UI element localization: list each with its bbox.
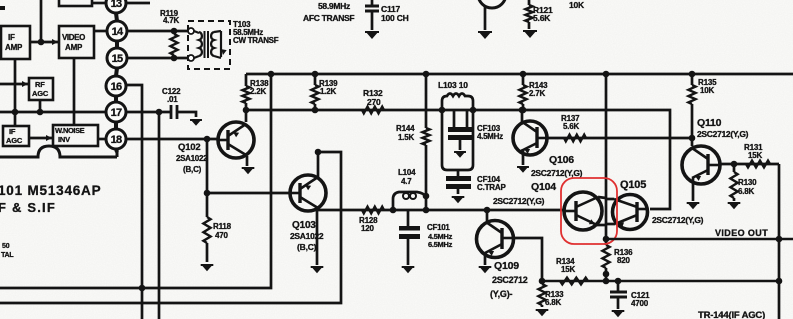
wire mid vertical to Q104/Q105	[605, 74, 608, 245]
ground R121	[523, 30, 537, 38]
ground R133	[536, 309, 549, 316]
resistor R139	[314, 74, 317, 85]
node R144 top	[423, 71, 430, 78]
wire transistor emitter	[484, 6, 487, 30]
node Q103 emitter junction	[315, 149, 322, 156]
inductor L104	[393, 192, 426, 210]
node RF AGC junction	[37, 109, 44, 116]
wire pin14 to T103	[127, 30, 191, 33]
svg-text:58.9MHz: 58.9MHz	[318, 1, 350, 11]
svg-text:470: 470	[215, 231, 228, 240]
svg-text:AGC: AGC	[32, 89, 49, 98]
ground CF101	[402, 266, 415, 273]
wire Q103 emitter rail	[0, 152, 341, 303]
svg-text:2.7K: 2.7K	[529, 89, 546, 98]
wire Q106 collector	[521, 110, 524, 124]
svg-text:4.5MHz: 4.5MHz	[477, 132, 503, 141]
capacitor C122	[127, 111, 170, 114]
svg-text:270: 270	[367, 97, 381, 107]
wire video signal line	[318, 209, 564, 212]
wire pin14 from VIDEO AMP	[94, 30, 107, 33]
node IF AMP output junction	[38, 39, 45, 46]
node Q109 collector bottom	[539, 278, 546, 285]
svg-text:AGC: AGC	[6, 136, 23, 145]
node box left	[439, 107, 446, 114]
svg-text:6.8K: 6.8K	[738, 187, 755, 196]
svg-text:6.8K: 6.8K	[545, 298, 562, 307]
wire RF AGC to pin17 rail	[39, 100, 42, 112]
wire pin16 vertical	[126, 85, 142, 319]
resistor R134	[560, 278, 588, 285]
T103 secondary wires	[214, 31, 221, 32]
node L104 right	[423, 193, 430, 200]
block VIDEO AMP	[59, 26, 94, 58]
IC U101 M51346AP block outline	[0, 146, 117, 157]
block IF AGC	[3, 126, 29, 146]
pin chain bars	[116, 13, 117, 21]
svg-text:1.5K: 1.5K	[398, 133, 415, 142]
wire pin15 to T103	[127, 57, 191, 60]
ceramic filter CF101	[407, 210, 410, 226]
svg-text:W.NOISE: W.NOISE	[55, 126, 85, 135]
wire Q109 collector	[513, 238, 542, 281]
wire IF AMP to IF AGC	[14, 59, 17, 126]
svg-text:2SC2712(Y,G): 2SC2712(Y,G)	[652, 215, 704, 225]
svg-text:(B,C): (B,C)	[183, 165, 202, 174]
resistor R136	[602, 245, 609, 268]
svg-text:CF101: CF101	[427, 223, 450, 232]
svg-text:Q105: Q105	[620, 179, 646, 191]
transistor Q105	[613, 195, 648, 230]
svg-text:L103 10: L103 10	[438, 80, 468, 90]
transistor Q109	[477, 221, 514, 258]
svg-text:15K: 15K	[561, 265, 575, 274]
node box right	[470, 107, 477, 114]
wire supply bus	[246, 73, 793, 76]
svg-text:13: 13	[111, 0, 122, 10]
svg-text:R144: R144	[396, 124, 415, 133]
svg-text:.01: .01	[167, 95, 178, 104]
svg-text:5.6K: 5.6K	[533, 13, 551, 23]
svg-text:5.6K: 5.6K	[563, 122, 580, 131]
node Q106 collector	[519, 107, 526, 114]
node R139 top	[312, 71, 319, 78]
svg-text:2SA1022: 2SA1022	[290, 231, 324, 241]
wire top feed to node	[40, 0, 43, 42]
svg-text:2SC2712(Y,G): 2SC2712(Y,G)	[697, 129, 749, 139]
block IF AMP	[1, 26, 30, 59]
resistor R135 branch	[691, 74, 694, 85]
svg-text:F & S.IF: F & S.IF	[0, 200, 56, 215]
svg-text:VIDEO OUT: VIDEO OUT	[715, 228, 768, 238]
wire pin13 left	[92, 2, 106, 5]
node L104 left	[390, 207, 397, 214]
edge mark	[0, 6, 5, 10]
ground Q106 emitter	[517, 166, 529, 173]
svg-text:2SA1022: 2SA1022	[176, 154, 208, 163]
resistor R137	[564, 135, 586, 142]
svg-text:2.2K: 2.2K	[250, 87, 267, 96]
wire Q102 collector / R138 branch	[245, 74, 248, 86]
node R136 bottom	[603, 271, 610, 278]
ground Q102	[242, 167, 255, 174]
node line-A start	[243, 107, 250, 114]
node Q103 base branch	[204, 190, 211, 197]
resistor R138	[242, 86, 249, 103]
svg-text:50: 50	[2, 243, 10, 250]
svg-text:15: 15	[112, 53, 123, 65]
node pin17 branch	[156, 109, 163, 116]
node video/right vertical	[776, 236, 783, 243]
wire pin13 right	[126, 2, 150, 5]
node R119 top	[171, 28, 178, 35]
wire Q102 emitter to ground	[246, 156, 249, 166]
svg-text:C.TRAP: C.TRAP	[477, 183, 506, 192]
node R136 bus junction	[603, 278, 610, 285]
svg-text:2SC2712(Y,G): 2SC2712(Y,G)	[531, 168, 583, 178]
wire pin17 vertical	[158, 112, 161, 319]
svg-text:Q106: Q106	[549, 154, 574, 166]
svg-text:IF: IF	[8, 33, 15, 42]
wire Q104 collector stub	[598, 197, 606, 198]
wire IF AGC to W.NOISE INV	[29, 137, 53, 140]
svg-text:4700: 4700	[631, 299, 649, 308]
transistor Q110	[682, 146, 720, 184]
svg-text:4.7K: 4.7K	[163, 16, 180, 25]
resistor R119	[170, 34, 177, 55]
node R144 bottom	[423, 207, 430, 214]
node rail crossing	[139, 285, 146, 292]
wire to Q103 base	[207, 192, 290, 195]
node video out tap	[603, 236, 610, 243]
node Q102 base branch	[204, 136, 211, 143]
svg-text:6.5MHz: 6.5MHz	[428, 240, 453, 249]
capacitor C121	[617, 281, 620, 291]
wire Q110 emitter	[692, 178, 695, 201]
pin 17	[106, 102, 126, 122]
block top (cut)	[59, 0, 92, 6]
svg-text:100 CH: 100 CH	[381, 13, 409, 23]
transformer T103 dashed box	[188, 21, 230, 69]
ground R130	[728, 202, 741, 209]
wire pin17 rail	[0, 111, 106, 114]
svg-text:Q109: Q109	[494, 260, 519, 272]
resistor R121	[528, 0, 531, 5]
capacitor C117	[371, 0, 374, 5]
svg-text:120: 120	[361, 224, 374, 233]
ground C122	[190, 119, 202, 126]
ground C121	[612, 310, 625, 317]
svg-text:AMP: AMP	[5, 43, 23, 52]
wire video out line	[606, 238, 793, 241]
ground Q109	[479, 266, 492, 273]
svg-text:18: 18	[111, 134, 122, 146]
svg-text:1.2K: 1.2K	[320, 87, 337, 96]
wire Q109 base	[486, 210, 489, 222]
svg-text:AMP: AMP	[65, 43, 83, 52]
svg-text:RF: RF	[35, 80, 45, 89]
svg-text:AFC TRANSF: AFC TRANSF	[303, 13, 354, 23]
transistor Q103	[290, 175, 326, 211]
wire Q109 emitter	[484, 253, 487, 265]
svg-text:101 M51346AP: 101 M51346AP	[0, 183, 101, 198]
svg-text:17: 17	[111, 107, 122, 119]
resistor R128	[362, 207, 384, 214]
transistor (cut at top)	[478, 0, 506, 8]
svg-text:820: 820	[617, 256, 630, 265]
wire W.NOISE INV to pin 18	[98, 138, 107, 141]
svg-text:TAL: TAL	[1, 252, 14, 259]
node C121 top	[615, 278, 622, 285]
ground CF104	[452, 196, 465, 203]
wire VIDEO AMP to W.NOISE INV	[73, 58, 76, 125]
wire Q105 collector stub	[606, 198, 614, 201]
svg-text:(B,C): (B,C)	[297, 242, 317, 252]
pin 13	[106, 0, 126, 13]
node Q109 base	[484, 207, 491, 214]
svg-text:14: 14	[112, 26, 124, 38]
node R130/R131	[731, 161, 738, 168]
wire Q103 emitter up	[317, 152, 320, 178]
wire base branch down	[206, 139, 209, 217]
shield box L103	[442, 94, 473, 111]
T103 terminal top	[188, 28, 194, 34]
block RF AGC	[29, 78, 53, 100]
wire line B (Q106 base feedback)	[547, 137, 693, 140]
T103 primary winding	[194, 31, 199, 33]
svg-text:15K: 15K	[748, 151, 762, 160]
svg-text:VIDEO: VIDEO	[62, 33, 85, 42]
wire Q110 base to R131	[721, 163, 779, 166]
T103 core	[204, 31, 206, 58]
node IF AGC feed	[12, 109, 19, 116]
wire right edge vertical	[778, 164, 781, 319]
node R119 bottom	[171, 55, 178, 62]
resistor R133	[541, 281, 544, 284]
node R143 bottom	[520, 107, 527, 114]
resistor R144 branch	[425, 74, 428, 128]
node R135/line-B junction	[689, 135, 696, 142]
highlight box around Q104/Q105	[561, 178, 617, 244]
svg-text:IF: IF	[9, 127, 16, 136]
svg-text:INV: INV	[58, 135, 70, 144]
ceramic filter CF103	[453, 110, 456, 127]
pin 15	[107, 48, 127, 68]
node lower bus right	[776, 278, 783, 285]
wire Q105 emitter stub	[606, 223, 615, 226]
svg-text:2SC2712(Y,G): 2SC2712(Y,G)	[493, 196, 545, 206]
pin 14	[107, 21, 127, 41]
svg-text:TR-144(IF AGC): TR-144(IF AGC)	[698, 310, 765, 319]
wire RF AGC input	[0, 83, 29, 86]
ground CF103	[454, 151, 466, 158]
svg-text:CW TRANSF: CW TRANSF	[233, 36, 279, 45]
wire pin18 to Q102 base	[127, 138, 218, 141]
svg-text:L104: L104	[398, 168, 416, 177]
pin 18	[106, 129, 126, 149]
svg-text:Q104: Q104	[531, 181, 556, 193]
svg-text:(Y,G)-: (Y,G)-	[490, 289, 513, 299]
ground transistor emitter	[478, 31, 492, 39]
ground Q103	[311, 266, 324, 273]
wire IF AMP to VIDEO AMP	[30, 41, 59, 44]
wire line A	[246, 110, 670, 209]
node R135 top	[689, 71, 696, 78]
svg-text:Q110: Q110	[697, 117, 722, 129]
ground Q110 emitter	[687, 202, 700, 209]
wire lower bus	[542, 280, 779, 283]
T103 terminal bottom	[188, 55, 194, 61]
node R139 bottom	[312, 107, 319, 114]
resistor R143 branch	[522, 74, 525, 85]
resistor R132	[362, 107, 384, 114]
transistor Q102	[218, 122, 254, 158]
ceramic filter CF104	[457, 170, 460, 176]
svg-text:10K: 10K	[569, 0, 585, 10]
resistor R118	[203, 217, 210, 243]
svg-text:R130: R130	[738, 178, 757, 187]
ground R118	[201, 264, 214, 271]
svg-text:10K: 10K	[700, 86, 714, 95]
wire Q103 collector down	[316, 208, 319, 265]
svg-text:16: 16	[111, 81, 122, 93]
wire Q104 emitter stub	[597, 224, 606, 227]
resistor R131	[746, 161, 770, 168]
transistor Q104	[564, 192, 602, 230]
ground C117	[365, 31, 379, 39]
svg-text:Q102: Q102	[178, 142, 200, 153]
wire Q106 emitter	[522, 149, 525, 165]
transistor Q106	[513, 121, 547, 155]
resistor R130	[733, 164, 736, 172]
T103 secondary winding	[211, 32, 214, 56]
svg-text:4.7: 4.7	[401, 177, 412, 186]
pin 16	[106, 76, 126, 96]
svg-text:Q103: Q103	[292, 220, 316, 231]
svg-text:R118: R118	[213, 222, 232, 231]
block W.NOISE INV	[53, 125, 98, 146]
node mid top	[603, 71, 610, 78]
svg-text:2SC2712: 2SC2712	[492, 275, 528, 285]
node R143 top	[520, 71, 527, 78]
wire bottom rail 1	[0, 74, 271, 288]
node bus-left top	[268, 71, 275, 78]
